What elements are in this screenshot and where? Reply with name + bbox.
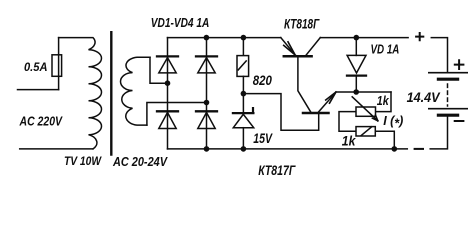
potentiometer R2 1k bbox=[352, 97, 378, 121]
wire secondary bottom to bridge right mid bbox=[147, 103, 207, 126]
junction dot VD rail tap bbox=[354, 35, 360, 41]
wire base network bbox=[243, 94, 318, 131]
wire fuse vertical branch bbox=[58, 38, 60, 90]
wire resistors left tie bbox=[339, 112, 356, 132]
wire VD top lead bbox=[355, 38, 357, 56]
wire pot right side bbox=[376, 92, 392, 112]
junction dot lower 1k rail bbox=[392, 146, 398, 152]
svg-text:14.4V: 14.4V bbox=[407, 89, 441, 105]
transistor VT1 collector bbox=[306, 38, 320, 56]
wire zener to bottom rail bbox=[242, 128, 244, 149]
battery GB1 dashed middle bbox=[447, 84, 449, 106]
svg-text:I (*): I (*) bbox=[383, 114, 403, 130]
svg-text:КТ817Г: КТ817Г bbox=[258, 162, 296, 178]
diode VD2 bridge top-right bbox=[196, 56, 217, 73]
wire AC mains bottom lead bbox=[20, 148, 93, 150]
transformer T1 secondary winding bbox=[121, 57, 151, 125]
wire top rail right section bbox=[320, 37, 408, 39]
diode VD3 bridge bottom-left bbox=[157, 111, 178, 128]
junction dot zener bottom bbox=[241, 146, 247, 152]
battery GB1 cell2 bbox=[429, 109, 467, 116]
transistor VT1 emitter arrow bbox=[284, 42, 296, 55]
wire top rail left section bbox=[168, 37, 281, 39]
fuse FU1 0.5A bbox=[52, 55, 62, 77]
diode VD4 bridge bottom-right bbox=[196, 111, 217, 128]
wire lower 1k to rail bbox=[375, 131, 394, 149]
wire AC mains top lead bbox=[18, 89, 59, 91]
minus sign output bottom bbox=[415, 148, 423, 150]
junction dot bridge right top bbox=[204, 35, 210, 41]
svg-text:820: 820 bbox=[253, 72, 272, 88]
svg-text:VD1-VD4 1A: VD1-VD4 1A bbox=[151, 15, 210, 30]
svg-text:VD 1A: VD 1A bbox=[371, 41, 400, 56]
junction dot 820 top bbox=[241, 35, 247, 41]
wire bridge left column bbox=[167, 38, 169, 149]
wire battery top lead bbox=[431, 38, 447, 73]
wire bridge right column bbox=[206, 38, 208, 149]
diode VD1 bridge top-left bbox=[157, 56, 178, 73]
wire VD bottom lead bbox=[355, 77, 357, 92]
svg-text:КТ818Г: КТ818Г bbox=[284, 16, 320, 31]
junction dot zener node bbox=[241, 91, 247, 97]
transistor VT1 KT818G emitter bbox=[281, 38, 295, 55]
transistor VT2 KT817G base bar bbox=[303, 112, 329, 115]
transistor VT2 emitter arrow bbox=[326, 92, 336, 103]
resistor R1 820 bbox=[237, 56, 249, 77]
wire secondary top to bridge left mid bbox=[150, 57, 168, 83]
transistor VT2 emitter bbox=[319, 92, 336, 112]
svg-text:1k: 1k bbox=[377, 94, 390, 108]
zener diode 15V bbox=[233, 108, 254, 128]
plus sign output top bbox=[416, 33, 423, 40]
svg-text:AC 20-24V: AC 20-24V bbox=[112, 155, 168, 169]
resistor R3 1k bbox=[356, 127, 375, 136]
minus sign battery bbox=[455, 120, 464, 122]
svg-text:0.5A: 0.5A bbox=[24, 60, 48, 74]
junction dot bridge left mid bbox=[165, 80, 171, 86]
transistor VT1 base bar bbox=[284, 55, 312, 58]
wire 820 resistor top lead bbox=[242, 38, 244, 56]
diode VD6 VD 1A bbox=[347, 55, 366, 75]
wire VT1 base to VT2 collector bbox=[298, 57, 311, 111]
plus sign battery bbox=[455, 60, 464, 69]
wire battery bottom lead bbox=[430, 116, 447, 148]
svg-text:TV 10W: TV 10W bbox=[64, 154, 102, 168]
svg-text:1k: 1k bbox=[342, 134, 357, 149]
transformer T1 primary winding bbox=[59, 38, 102, 149]
junction dot bridge right mid bbox=[204, 100, 210, 106]
wire bottom rail bbox=[168, 148, 408, 150]
battery GB1 cell1 bbox=[429, 73, 467, 80]
junction dot node A bbox=[353, 89, 359, 95]
junction dot bridge right bottom bbox=[204, 146, 210, 152]
svg-text:15V: 15V bbox=[253, 130, 273, 146]
svg-text:AC 220V: AC 220V bbox=[19, 114, 63, 129]
transformer T1 core bbox=[110, 32, 112, 154]
wire node A horizontal bbox=[336, 91, 391, 93]
wire 820 to zener bbox=[242, 76, 244, 113]
